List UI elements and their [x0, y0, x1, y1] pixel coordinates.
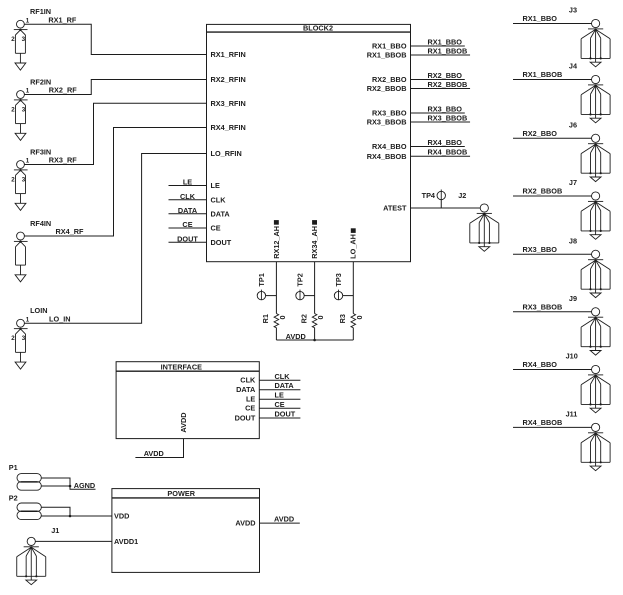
svg-text:R2: R2: [299, 314, 308, 323]
svg-text:RX4_BBOB: RX4_BBOB: [428, 148, 468, 157]
pin RX2_BBO of BLOCK2: [372, 75, 407, 84]
net label LE: [183, 178, 192, 187]
svg-text:RX4_BBO: RX4_BBO: [372, 142, 407, 151]
pin RX2_RFIN of BLOCK2: [211, 75, 246, 84]
wire net RX3_BBO to J8: [513, 253, 592, 255]
net label AGND: [74, 481, 96, 490]
net label RX3_BBOB: [428, 114, 468, 123]
svg-text:1: 1: [26, 88, 30, 95]
net label RX3_BBO: [523, 245, 558, 254]
net label CE: [182, 220, 192, 229]
pin LE of BLOCK2: [211, 181, 220, 190]
svg-text:RX1_BBOB: RX1_BBOB: [428, 47, 468, 56]
svg-text:J7: J7: [569, 178, 577, 187]
pin AVDD of POWER: [235, 519, 255, 528]
svg-text:CE: CE: [182, 220, 192, 229]
connector LOIN: [11, 306, 47, 369]
svg-text:2: 2: [11, 106, 15, 113]
svg-text:LE: LE: [246, 395, 255, 404]
svg-text:RX1_BBO: RX1_BBO: [372, 42, 407, 51]
svg-text:RX3_BBO: RX3_BBO: [523, 245, 558, 254]
wire net DATA stub: [259, 389, 300, 391]
connector P2: [9, 494, 42, 520]
svg-text:R1: R1: [261, 314, 270, 323]
wire R1 branch: [275, 262, 277, 340]
net label AVDD: [286, 332, 306, 341]
svg-text:DOUT: DOUT: [235, 413, 256, 422]
svg-text:RX3_BBOB: RX3_BBOB: [428, 114, 468, 123]
pin LO_RFIN of BLOCK2: [211, 149, 242, 158]
svg-text:CLK: CLK: [180, 192, 196, 201]
wire net RX4_BBOB stub: [411, 155, 471, 157]
net label DOUT: [177, 234, 198, 243]
wire net DATA: [169, 213, 207, 215]
svg-text:DATA: DATA: [236, 385, 256, 394]
connector J7: [569, 178, 610, 239]
svg-text:AVDD1: AVDD1: [114, 537, 138, 546]
connector RF2IN: [11, 77, 51, 140]
wire net RX4_BBOB to J11: [513, 426, 592, 428]
pin AVDD1 of POWER: [114, 537, 138, 546]
svg-text:TP2: TP2: [295, 273, 304, 286]
pin RX3_BBO of BLOCK2: [372, 109, 407, 118]
pin RX4_BBOB of BLOCK2: [367, 152, 407, 161]
pin CLK of BLOCK2: [211, 195, 227, 204]
net label AVDD: [274, 515, 294, 524]
wire net RX1_BBOB stub: [411, 54, 471, 56]
net label RX1_BBO: [428, 38, 463, 47]
svg-text:0: 0: [278, 315, 287, 319]
net label RX4_BBO: [428, 138, 463, 147]
net label RX3_BBOB: [523, 303, 563, 312]
connector RF4IN: [14, 219, 51, 282]
wire AVDD to INTERFACE: [135, 439, 183, 458]
svg-text:AVDD: AVDD: [235, 519, 255, 528]
connector J6: [569, 120, 610, 181]
svg-text:RX1_RF: RX1_RF: [48, 15, 77, 24]
svg-text:RX2_BBO: RX2_BBO: [428, 71, 463, 80]
pin LO_AH of BLOCK2: [349, 228, 358, 258]
pin RX34_AH of BLOCK2: [310, 220, 319, 259]
svg-text:TP3: TP3: [334, 273, 343, 286]
pin CE of BLOCK2: [211, 224, 221, 233]
wire P1 to AGND: [41, 478, 95, 489]
pin AVDD of INTERFACE: [179, 412, 188, 432]
svg-text:3: 3: [22, 335, 26, 342]
wire net CLK stub: [259, 379, 300, 381]
svg-text:RX2_BBOB: RX2_BBOB: [428, 80, 468, 89]
svg-text:J3: J3: [569, 6, 577, 15]
svg-text:RX2_BBOB: RX2_BBOB: [367, 84, 407, 93]
wire net RX2_BBOB to J7: [513, 195, 592, 197]
svg-text:CE: CE: [275, 400, 285, 409]
test point TP3: [334, 273, 353, 300]
svg-text:J11: J11: [566, 409, 578, 418]
svg-text:J2: J2: [458, 191, 466, 200]
svg-text:LO_RFIN: LO_RFIN: [211, 149, 242, 158]
net label RX4_BBOB: [428, 148, 468, 157]
wire net CLK: [169, 199, 207, 201]
svg-text:LE: LE: [183, 178, 192, 187]
pin ATEST of BLOCK2: [383, 204, 407, 213]
test point TP1: [257, 273, 277, 300]
svg-text:RX4_BBOB: RX4_BBOB: [367, 152, 407, 161]
svg-text:RX3_BBOB: RX3_BBOB: [523, 303, 563, 312]
svg-text:J10: J10: [566, 352, 578, 361]
svg-text:R3: R3: [338, 314, 347, 323]
test point TP4: [422, 190, 446, 209]
svg-text:J1: J1: [51, 526, 59, 535]
svg-text:CLK: CLK: [211, 195, 227, 204]
svg-text:3: 3: [22, 36, 26, 43]
svg-text:P1: P1: [9, 463, 18, 472]
net label RX2_BBO: [428, 71, 463, 80]
svg-text:RX1_BBOB: RX1_BBOB: [523, 70, 563, 79]
resistor R3 0 ohm: [338, 314, 364, 328]
pin CE of INTERFACE: [245, 404, 255, 413]
svg-text:RX1_RFIN: RX1_RFIN: [211, 50, 246, 59]
wire net RX4_RF: [24, 128, 206, 237]
net label RX3_RF: [49, 156, 78, 165]
svg-text:RX4_BBOB: RX4_BBOB: [523, 418, 563, 427]
svg-text:RX4_RFIN: RX4_RFIN: [211, 123, 246, 132]
pin RX1_BBOB of BLOCK2: [367, 51, 407, 60]
svg-text:RX34_AH: RX34_AH: [310, 226, 319, 259]
svg-text:RX2_RF: RX2_RF: [49, 86, 78, 95]
svg-text:RX1_BBO: RX1_BBO: [523, 14, 558, 23]
svg-text:RX3_RF: RX3_RF: [49, 156, 78, 165]
svg-text:AVDD: AVDD: [274, 515, 294, 524]
wire net RX3_BBOB stub: [411, 121, 471, 123]
svg-text:RX3_RFIN: RX3_RFIN: [211, 99, 246, 108]
wire net DOUT: [169, 241, 207, 243]
wire AVDD rail: [276, 339, 353, 342]
net label RX4_RF: [56, 227, 85, 236]
wire net RX3_BBO stub: [411, 112, 465, 114]
wire net RX2_BBO to J6: [513, 137, 592, 139]
resistor R1 0 ohm: [261, 314, 287, 328]
test point TP2: [295, 273, 314, 300]
svg-text:1: 1: [26, 17, 30, 24]
block U-POWER body: [112, 489, 260, 573]
svg-text:3: 3: [22, 106, 26, 113]
pin RX3_RFIN of BLOCK2: [211, 99, 246, 108]
svg-text:RX2_BBOB: RX2_BBOB: [523, 187, 563, 196]
pin DATA of INTERFACE: [236, 385, 256, 394]
svg-text:CE: CE: [245, 404, 255, 413]
connector J4: [569, 62, 610, 123]
resistor R2 0 ohm: [299, 314, 325, 328]
wire net DOUT stub: [259, 417, 300, 419]
wire net CE: [169, 227, 207, 229]
wire net RX3_RF: [24, 103, 206, 164]
connector J1: [17, 526, 60, 585]
wire net LE: [169, 185, 207, 187]
net label CE: [275, 400, 285, 409]
connector J11: [566, 409, 611, 470]
pin DATA of BLOCK2: [211, 209, 231, 218]
svg-text:RX1_BBOB: RX1_BBOB: [367, 51, 407, 60]
svg-text:AVDD: AVDD: [144, 449, 164, 458]
svg-text:RX4_BBO: RX4_BBO: [428, 138, 463, 147]
pin RX1_BBO of BLOCK2: [372, 42, 407, 51]
wire R2 branch: [314, 262, 316, 340]
svg-text:TP1: TP1: [257, 273, 266, 286]
svg-text:RX3_BBO: RX3_BBO: [372, 109, 407, 118]
net label RX2_BBOB: [523, 187, 563, 196]
svg-text:LOIN: LOIN: [30, 306, 47, 315]
net label RX3_BBO: [428, 105, 463, 114]
svg-text:0: 0: [316, 315, 325, 319]
svg-text:DOUT: DOUT: [211, 238, 232, 247]
net label DATA: [275, 381, 295, 390]
net label RX1_RF: [48, 15, 77, 24]
svg-text:3: 3: [22, 176, 26, 183]
svg-text:J9: J9: [569, 294, 577, 303]
svg-text:LO_IN: LO_IN: [49, 314, 71, 323]
connector J2: [458, 191, 499, 251]
pin LE of INTERFACE: [246, 395, 255, 404]
wire net RX4_BBO stub: [411, 146, 465, 148]
svg-text:INTERFACE: INTERFACE: [161, 363, 202, 372]
svg-text:RX2_BBO: RX2_BBO: [372, 75, 407, 84]
svg-text:DATA: DATA: [275, 381, 295, 390]
svg-text:CE: CE: [211, 224, 221, 233]
svg-text:RX4_RF: RX4_RF: [56, 227, 85, 236]
block U-INTERFACE body: [116, 362, 259, 439]
svg-text:P2: P2: [9, 494, 18, 503]
wire net AVDD stub: [260, 522, 300, 524]
net label RX2_BBOB: [428, 80, 468, 89]
connector J10: [566, 352, 611, 413]
net label DOUT: [275, 410, 296, 419]
svg-text:CLK: CLK: [275, 372, 291, 381]
connector J3: [569, 6, 610, 67]
pin CLK of INTERFACE: [240, 376, 256, 385]
svg-text:RX2_RFIN: RX2_RFIN: [211, 75, 246, 84]
net label CLK: [180, 192, 196, 201]
pin VDD of POWER: [114, 512, 129, 521]
svg-text:0: 0: [355, 315, 364, 319]
net label AVDD: [144, 449, 164, 458]
svg-text:VDD: VDD: [114, 512, 129, 521]
svg-text:RX2_BBO: RX2_BBO: [523, 129, 558, 138]
svg-text:2: 2: [11, 36, 15, 43]
net label RX4_BBO: [523, 360, 558, 369]
wire net CE stub: [259, 407, 300, 409]
svg-text:AVDD: AVDD: [179, 412, 188, 432]
svg-text:2: 2: [11, 176, 15, 183]
pin RX4_BBO of BLOCK2: [372, 142, 407, 151]
svg-text:RX1_BBO: RX1_BBO: [428, 38, 463, 47]
wire J1 to AVDD1: [35, 540, 112, 542]
net label RX1_BBOB: [428, 47, 468, 56]
svg-text:BLOCK2: BLOCK2: [303, 24, 333, 33]
net label LO_IN: [49, 314, 71, 323]
svg-text:RX3_BBO: RX3_BBO: [428, 105, 463, 114]
wire net RX2_RF: [24, 80, 206, 95]
pin RX1_RFIN of BLOCK2: [211, 50, 246, 59]
net label RX2_BBO: [523, 129, 558, 138]
pin RX12_AH of BLOCK2: [272, 220, 281, 259]
net label RX1_BBOB: [523, 70, 563, 79]
net label RX4_BBOB: [523, 418, 563, 427]
connector RF1IN: [11, 7, 51, 70]
svg-text:2: 2: [11, 335, 15, 342]
connector J8: [569, 236, 610, 297]
svg-text:DOUT: DOUT: [275, 410, 296, 419]
svg-text:ATEST: ATEST: [383, 204, 407, 213]
svg-text:DATA: DATA: [178, 206, 198, 215]
net label CLK: [275, 372, 291, 381]
wire net RX1_BBO stub: [411, 45, 465, 47]
wire net RX2_BBO stub: [411, 79, 465, 81]
svg-text:AGND: AGND: [74, 481, 96, 490]
pin DOUT of BLOCK2: [211, 238, 232, 247]
svg-text:1: 1: [26, 158, 30, 165]
svg-text:RX3_BBOB: RX3_BBOB: [367, 118, 407, 127]
net label RX2_RF: [49, 86, 78, 95]
svg-text:CLK: CLK: [240, 376, 256, 385]
wire net RX2_BBOB stub: [411, 88, 471, 90]
svg-text:LO_AH: LO_AH: [349, 234, 358, 259]
wire net LO_IN: [24, 154, 206, 324]
wire net RX1_RF: [24, 24, 206, 54]
svg-text:RX12_AH: RX12_AH: [272, 226, 281, 259]
svg-text:LE: LE: [211, 181, 220, 190]
svg-text:TP4: TP4: [422, 191, 436, 200]
svg-text:J8: J8: [569, 236, 577, 245]
net label LE: [275, 391, 284, 400]
connector J9: [569, 294, 610, 355]
pin RX2_BBOB of BLOCK2: [367, 84, 407, 93]
svg-text:1: 1: [26, 316, 30, 323]
wire net RX1_BBO to J3: [513, 23, 592, 25]
svg-text:J6: J6: [569, 120, 577, 129]
pin RX3_BBOB of BLOCK2: [367, 118, 407, 127]
connector P1: [9, 463, 42, 490]
svg-text:RX4_BBO: RX4_BBO: [523, 360, 558, 369]
pin RX4_RFIN of BLOCK2: [211, 123, 246, 132]
svg-text:DOUT: DOUT: [177, 234, 198, 243]
svg-text:AVDD: AVDD: [286, 332, 306, 341]
wire net RX1_BBOB to J4: [513, 79, 592, 81]
net label DATA: [178, 206, 198, 215]
wire R3 branch: [352, 262, 354, 340]
svg-text:RF4IN: RF4IN: [30, 219, 51, 228]
block U-BLOCK2 body: [207, 24, 411, 262]
svg-text:J4: J4: [569, 62, 578, 71]
connector RF3IN: [11, 147, 51, 210]
pin DOUT of INTERFACE: [235, 413, 256, 422]
svg-text:POWER: POWER: [167, 489, 195, 498]
net label RX1_BBO: [523, 14, 558, 23]
wire net LE stub: [259, 398, 300, 400]
wire P2 to VDD: [41, 507, 112, 517]
wire net RX4_BBO to J10: [513, 369, 592, 371]
wire net RX3_BBOB to J9: [513, 311, 592, 313]
wire net ATEST: [411, 207, 481, 209]
svg-text:DATA: DATA: [211, 209, 231, 218]
svg-text:LE: LE: [275, 391, 284, 400]
